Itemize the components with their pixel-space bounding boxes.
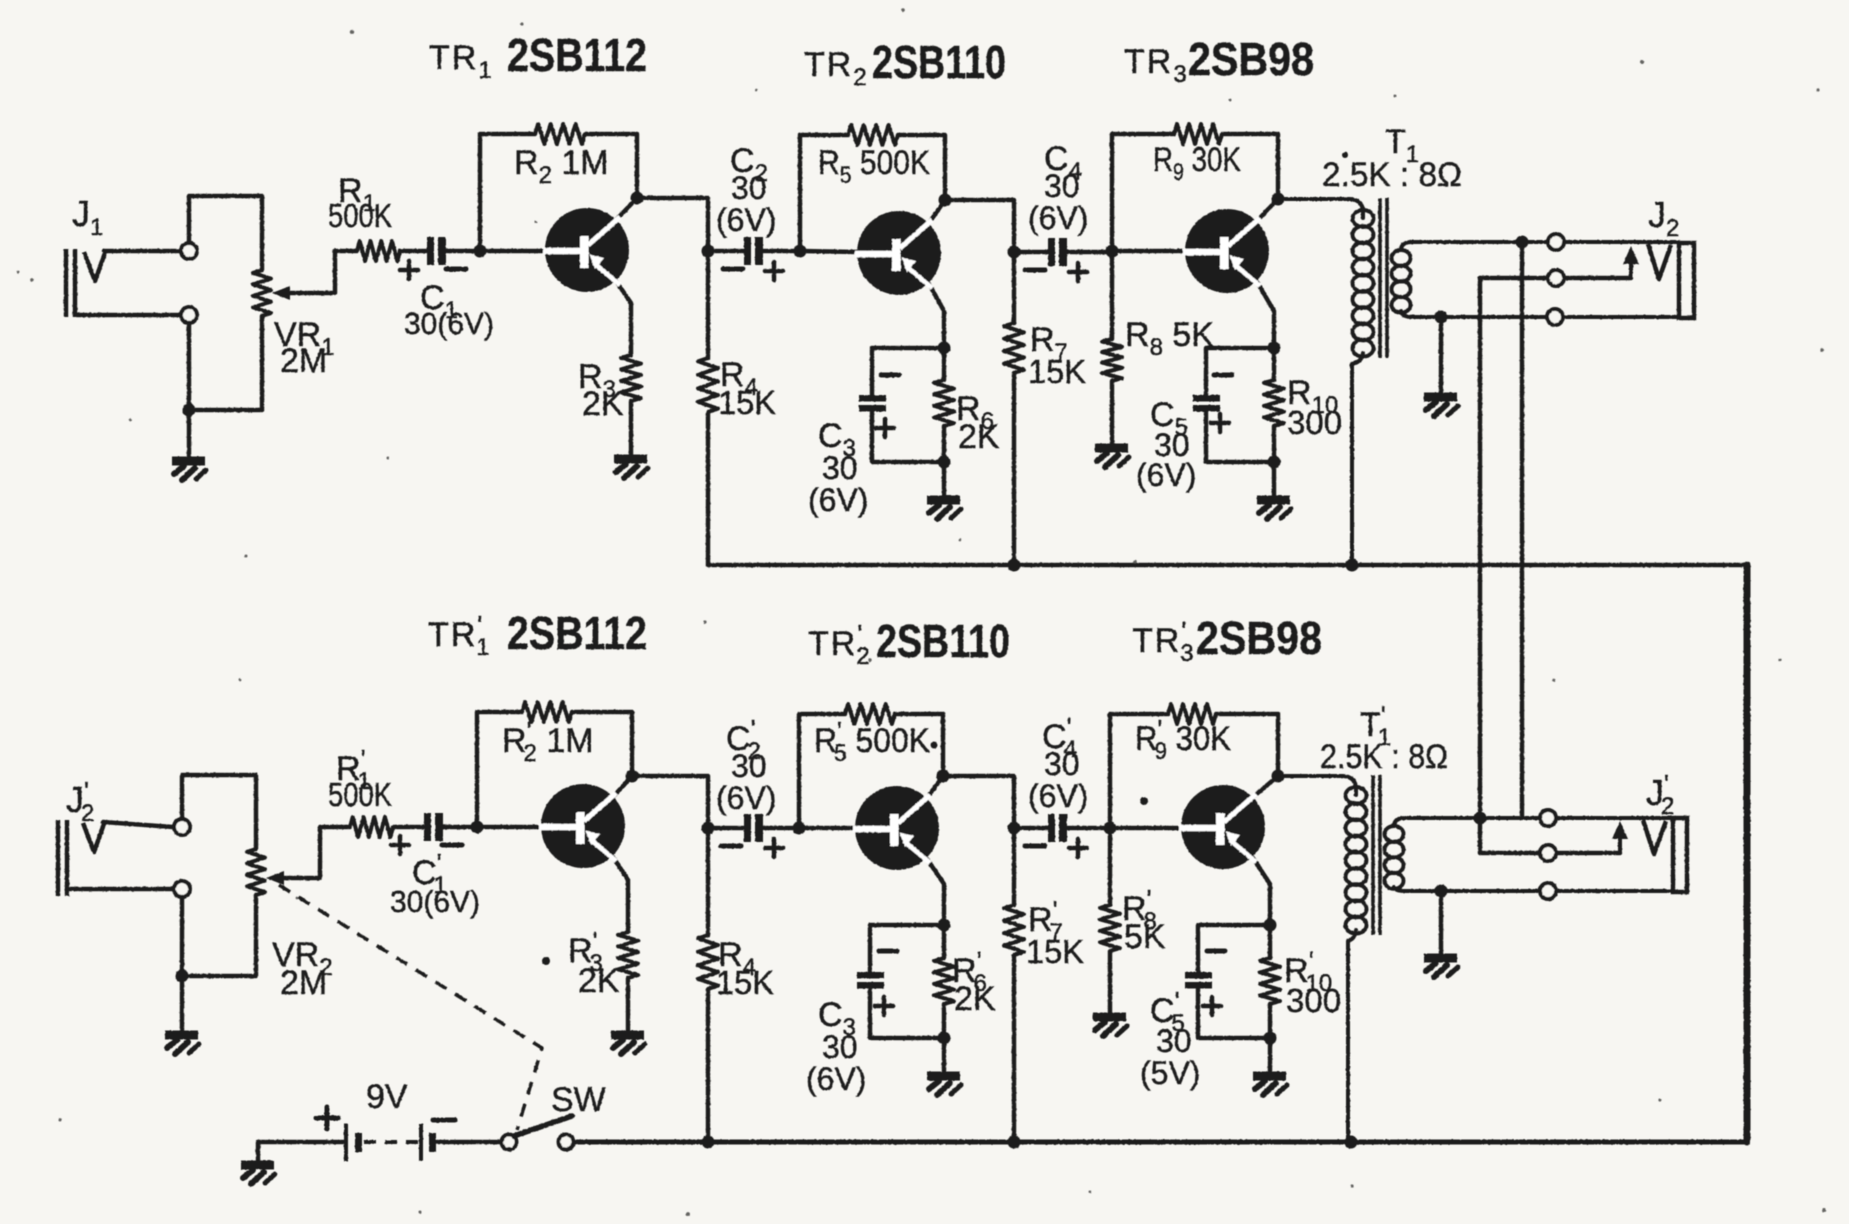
feedback loop wire up from node C' xyxy=(799,714,845,828)
resistor R6 2K xyxy=(942,348,946,380)
svg-text:TR'2: TR'2 xyxy=(808,619,872,670)
feedback loop wire up from node A xyxy=(480,134,535,251)
polarity - of C3 xyxy=(881,373,899,378)
svg-text:2SB112: 2SB112 xyxy=(507,607,647,659)
wire T1' secondary top to J2' xyxy=(1394,818,1673,825)
capacitor C5 30(6V) xyxy=(1193,395,1220,412)
feedback loop wire up from node E' xyxy=(1110,714,1168,828)
wire R7' to supply rail xyxy=(1012,955,1016,1142)
battery 9V cell 2 short plate xyxy=(429,1133,436,1152)
ground (below J2) xyxy=(1424,397,1458,416)
wire junction to ground (VR2) xyxy=(180,976,184,1032)
wire R9 to TR3 collector node xyxy=(1222,134,1278,198)
node: TR2 collector junction xyxy=(939,194,952,207)
wire C3' bottom to node xyxy=(870,989,944,1038)
wire R7 to supply rail xyxy=(1012,373,1016,565)
node: TR3' emitter / C5' tap xyxy=(1264,919,1277,932)
wire: J2 tip line to lower channel (long vertical) xyxy=(1520,242,1524,818)
svg-text:(6V): (6V) xyxy=(1136,457,1196,493)
resistor R3' 2K xyxy=(618,932,638,978)
battery inter-cell dashed link xyxy=(364,1140,419,1144)
svg-text:(6V): (6V) xyxy=(1028,200,1088,236)
resistor R7 15K xyxy=(1004,323,1024,373)
svg-text:R'2 1M: R'2 1M xyxy=(502,716,594,767)
wire R5 to TR2 collector node xyxy=(898,135,945,199)
ground (below VR2) xyxy=(165,1035,199,1054)
svg-text:(5V): (5V) xyxy=(1140,1055,1200,1091)
wire R2' to collector node xyxy=(572,712,632,775)
polarity - of C2' xyxy=(721,844,741,849)
node: secondary bottom / ground tap xyxy=(1435,311,1448,324)
ground (below J2') xyxy=(1424,958,1458,977)
wire R3 to ground xyxy=(629,401,633,456)
ground (below R6') xyxy=(927,1076,961,1095)
wire node C' to TR2' base xyxy=(799,826,857,830)
capacitor C1 30(6V) xyxy=(427,237,446,265)
feedback loop wire up from node C xyxy=(800,135,848,251)
node: TR3' collector junction xyxy=(1272,770,1285,783)
svg-text:(6V): (6V) xyxy=(806,1061,866,1097)
transformer T1 core xyxy=(1380,198,1387,358)
node C (TR2 base node) xyxy=(794,245,807,258)
supply bus right vertical (thick) xyxy=(1744,565,1751,1142)
wire T1 secondary top to J2 xyxy=(1401,242,1679,249)
node E' (TR3' base node) xyxy=(1104,822,1117,835)
polarity + of C3 xyxy=(876,419,894,437)
wire terminal down to ground node xyxy=(187,323,191,410)
svg-text:SW: SW xyxy=(551,1081,606,1119)
VR2 wiper arrow xyxy=(266,871,284,885)
polarity + of C4' xyxy=(1069,839,1087,857)
polarity - of C4 xyxy=(1025,268,1045,273)
wire TR1' collector to R4' top xyxy=(632,776,708,828)
battery + sign xyxy=(316,1107,338,1129)
node C' (TR2' base node) xyxy=(793,822,806,835)
wire C3 bottom to node xyxy=(872,412,944,462)
svg-text:2K: 2K xyxy=(578,962,620,1000)
svg-text:(6V): (6V) xyxy=(716,780,776,816)
input jack J2' xyxy=(58,820,67,896)
polarity - of C3' xyxy=(879,949,897,954)
resistor R1' 500K xyxy=(320,825,350,829)
svg-text:2M: 2M xyxy=(280,342,327,380)
terminal circle J2' sleeve contact xyxy=(1540,883,1556,899)
wire to ground below J2 xyxy=(1439,317,1443,394)
battery 9V cell 1 short plate xyxy=(355,1133,362,1152)
capacitor C2' 30(6V) xyxy=(744,814,763,842)
wire node C to TR2 base xyxy=(800,251,858,252)
node: VR2 bottom / ground junction xyxy=(176,970,189,983)
node: TR1 collector junction xyxy=(631,192,644,205)
TR3 emitter lead xyxy=(1257,282,1274,348)
svg-text:30: 30 xyxy=(731,748,767,784)
wire battery ground drop xyxy=(256,1142,260,1162)
wire C4' to node E' xyxy=(1067,826,1110,830)
ground (below R10') xyxy=(1253,1076,1287,1095)
wire C2' to node C' xyxy=(763,826,799,830)
polarity - of C2 xyxy=(723,267,743,272)
wire: J2 ring to lower channel (long vertical) xyxy=(1478,278,1482,853)
resistor R4 15K xyxy=(698,358,718,412)
wire J1 sleeve to terminal xyxy=(77,313,180,317)
wire to ground below J2' xyxy=(1439,891,1443,955)
node: rail/R4' junction xyxy=(702,1136,715,1149)
svg-text:30: 30 xyxy=(1044,168,1080,204)
TR1 emitter lead xyxy=(616,281,631,355)
node: TR2 emitter / C3 tap xyxy=(938,342,951,355)
J2' tip arrow xyxy=(1618,835,1622,853)
svg-text:15K: 15K xyxy=(1028,353,1086,390)
svg-text:500K: 500K xyxy=(328,776,392,813)
wire TR3 collector to T1 primary xyxy=(1278,199,1363,218)
node: secondary top / line tap xyxy=(1516,236,1529,249)
node: C5/R10 bottom junction xyxy=(1268,456,1281,469)
node: TR3 emitter / C5 tap xyxy=(1268,342,1281,355)
resistor R1 500K xyxy=(335,249,357,253)
transistor TR1' 2SB112 xyxy=(539,784,625,868)
svg-text:2.5K : 8Ω: 2.5K : 8Ω xyxy=(1322,156,1462,194)
output jack J2 xyxy=(1648,244,1671,279)
resistor R10 300 xyxy=(1272,348,1276,380)
node: rail/R7' junction xyxy=(1008,1136,1021,1149)
transformer T1' primary winding xyxy=(1346,787,1367,934)
J2' middle contact wire xyxy=(1480,851,1620,855)
wire node E' to TR3' base xyxy=(1110,826,1182,830)
node B' (TR1' collector / C2' tap) xyxy=(702,822,715,835)
node: TR1' collector junction xyxy=(626,770,639,783)
transistor TR3 2SB98 xyxy=(1183,209,1269,293)
switch SW xyxy=(502,1135,517,1150)
wire node E to TR3 base xyxy=(1112,249,1186,253)
polarity - of C1 xyxy=(446,267,466,272)
node: secondary bottom / ground tap (J2') xyxy=(1435,885,1448,898)
polarity + of C1' xyxy=(391,836,409,854)
wire terminal up to VR1 top xyxy=(189,196,262,270)
node: TR2' emitter / C3' tap xyxy=(938,919,951,932)
polarity + of C5' xyxy=(1203,997,1221,1015)
svg-text:9V: 9V xyxy=(366,1078,408,1116)
wire J2' tip to terminal xyxy=(103,822,173,827)
wire TR2 collector to R7 top xyxy=(945,200,1014,252)
transformer T1 primary winding xyxy=(1353,210,1374,357)
resistor R2 1M xyxy=(535,124,585,144)
svg-text:15K: 15K xyxy=(1026,933,1084,970)
svg-text:R'5 500K: R'5 500K xyxy=(814,716,930,767)
polarity + of C1 xyxy=(400,261,418,279)
TR2' emitter lead xyxy=(927,859,944,925)
capacitor C4 30(6V) xyxy=(1048,238,1067,266)
svg-text:30(6V): 30(6V) xyxy=(390,884,480,919)
ink speck near R3' xyxy=(542,957,550,965)
ink speck near TR3' xyxy=(1140,797,1148,805)
battery 9V cell 2 long plate xyxy=(419,1124,423,1161)
TR3' collector lead xyxy=(1253,776,1278,797)
transformer T1' secondary winding xyxy=(1385,826,1404,889)
node: TR3 collector junction xyxy=(1272,193,1285,206)
wire T1 secondary bottom to J2 sleeve xyxy=(1401,311,1679,317)
node: C5'/R10' bottom junction xyxy=(1264,1032,1277,1045)
capacitor C5' 30(5V) xyxy=(1185,972,1212,989)
wire C5 branch top xyxy=(1206,348,1274,395)
TR1 collector lead xyxy=(616,198,637,220)
transformer T1 secondary winding xyxy=(1392,250,1411,313)
node: VR1 bottom / ground junction xyxy=(183,404,196,417)
wire R5' to TR2' collector node xyxy=(895,714,943,775)
wire TR1 collector to R4 top xyxy=(637,198,708,251)
terminal circle J2 sleeve contact xyxy=(1547,309,1563,325)
capacitor C1' 30(6V) xyxy=(424,813,443,841)
svg-text:(6V): (6V) xyxy=(1028,778,1088,814)
svg-text:2SB110: 2SB110 xyxy=(872,36,1006,88)
resistor R8' 5K xyxy=(1108,828,1112,905)
svg-text:500K: 500K xyxy=(328,197,392,234)
TR2 collector lead xyxy=(929,200,945,223)
TR1' collector lead xyxy=(613,776,632,797)
terminal circle (J2' sleeve) xyxy=(174,881,190,897)
wire node B' down to R4' xyxy=(706,828,710,935)
svg-text:2K: 2K xyxy=(958,418,1000,456)
resistor R3 2K xyxy=(621,355,641,401)
svg-text:2.5K : 8Ω: 2.5K : 8Ω xyxy=(1320,738,1448,776)
ground (below R6) xyxy=(927,500,961,519)
ground (below VR1) xyxy=(172,461,206,480)
wire to ground below R10' xyxy=(1268,1038,1272,1073)
node A' (TR1' base node) xyxy=(471,821,484,834)
resistor R5' 500K xyxy=(845,704,895,724)
svg-text:2SB112: 2SB112 xyxy=(507,29,647,81)
wire R2 to collector node xyxy=(585,134,637,197)
wire to ground below R6 xyxy=(942,462,946,497)
svg-text:30: 30 xyxy=(822,1029,858,1065)
transistor TR2 2SB110 xyxy=(855,211,941,295)
ground (below R8) xyxy=(1095,448,1129,467)
wire TR2' collector to R7' top xyxy=(943,776,1014,828)
resistor R9' 30K xyxy=(1168,704,1216,724)
wire node B' to C2' xyxy=(708,826,744,830)
capacitor C4' 30(6V) xyxy=(1048,814,1067,842)
terminal circle J2 ring contact xyxy=(1548,270,1564,286)
svg-text:30: 30 xyxy=(822,450,858,486)
TR3' emitter lead xyxy=(1253,858,1270,925)
output jack J2' xyxy=(1643,820,1666,854)
VR1 wiper arrow xyxy=(272,286,290,300)
ground (below R3) xyxy=(614,459,648,478)
svg-text:5K: 5K xyxy=(1124,918,1166,956)
svg-text:30: 30 xyxy=(731,170,767,206)
node: rail/T1' primary junction xyxy=(1345,1136,1358,1149)
J2 tip arrow xyxy=(1629,260,1633,278)
svg-text:TR'1: TR'1 xyxy=(428,610,492,661)
wire VR1 bottom to ground node xyxy=(196,316,262,410)
transistor TR2' 2SB110 xyxy=(853,786,939,870)
J2 middle contact wire xyxy=(1480,276,1631,280)
resistor R8 5K xyxy=(1110,251,1114,339)
svg-text:15K: 15K xyxy=(716,964,774,1001)
node A (TR1 base node) xyxy=(474,245,487,258)
terminal circle (J1 tip) xyxy=(181,243,197,259)
wire R1' to C1' xyxy=(393,825,423,829)
transformer T1' core xyxy=(1373,775,1380,935)
capacitor C2 30(6V) xyxy=(744,237,763,265)
svg-text:2SB98: 2SB98 xyxy=(1196,612,1322,664)
wire C5 bottom to node xyxy=(1206,412,1274,462)
mechanical link VR2-SW (dashed) xyxy=(279,885,542,1130)
svg-text:TR'3: TR'3 xyxy=(1132,616,1196,667)
resistor R5 500K xyxy=(848,125,898,145)
polarity - of C4' xyxy=(1025,844,1045,849)
wire node D' down to R7' xyxy=(1012,828,1016,905)
svg-text:300: 300 xyxy=(1286,982,1341,1019)
wire T1 primary bottom to rail xyxy=(1352,353,1363,565)
wire terminal down to ground node xyxy=(180,897,184,976)
node: C3'/R6' bottom junction xyxy=(938,1032,951,1045)
TR1' emitter lead xyxy=(613,857,628,932)
wire R1 to C1 xyxy=(400,249,426,253)
svg-text:R'9 30K: R'9 30K xyxy=(1135,714,1231,765)
wire C5' branch top xyxy=(1198,925,1270,972)
wire C3 branch top xyxy=(872,348,944,395)
feedback loop wire up from node E xyxy=(1112,134,1174,251)
ground (below R3') xyxy=(611,1035,645,1054)
resistor R2' 1M xyxy=(522,702,572,722)
TR2' collector lead xyxy=(927,776,943,798)
wire node D to C4 xyxy=(1014,250,1048,254)
svg-text:2M: 2M xyxy=(280,964,327,1002)
wire to ground below R6' xyxy=(942,1038,946,1073)
wire R4 to supply rail xyxy=(706,412,710,565)
input jack J1 xyxy=(66,249,75,317)
potentiometer VR2 2M (element) xyxy=(247,849,265,895)
svg-text:2K: 2K xyxy=(954,980,996,1018)
node: C3/R6 bottom junction xyxy=(938,456,951,469)
terminal circle J2' tip contact xyxy=(1540,810,1556,826)
TR2 emitter lead xyxy=(929,284,944,348)
wire R4' to supply rail xyxy=(706,989,710,1142)
svg-text:(6V): (6V) xyxy=(716,202,776,238)
wire node A' to TR1' base xyxy=(477,825,542,829)
wire node D down to R7 xyxy=(1012,252,1016,323)
wire T1' primary bottom to rail xyxy=(1348,930,1356,1142)
resistor R9 30K xyxy=(1174,124,1222,144)
wire C2 to node C xyxy=(763,249,800,253)
ground (below R8') xyxy=(1093,1017,1127,1036)
wire VR2 bottom to ground node xyxy=(189,895,256,976)
svg-text:2SB98: 2SB98 xyxy=(1188,33,1314,85)
wire R9' to TR3' collector node xyxy=(1216,714,1278,775)
svg-text:30: 30 xyxy=(1156,1023,1192,1059)
feedback loop wire up from node A' xyxy=(477,712,522,827)
wire TR3' collector to T1' primary xyxy=(1278,776,1356,795)
svg-text:300: 300 xyxy=(1287,404,1342,441)
terminal circle (J1 sleeve) xyxy=(181,307,197,323)
svg-text:30(6V): 30(6V) xyxy=(404,306,494,341)
resistor R10' 300 xyxy=(1268,925,1272,958)
svg-text:(6V): (6V) xyxy=(808,482,868,518)
wire terminal up to VR2 top xyxy=(182,775,256,849)
node E (TR3 base node) xyxy=(1106,245,1119,258)
wire C5' bottom to node xyxy=(1198,989,1270,1038)
wire node B down to R4 xyxy=(706,251,710,358)
wire J2' sleeve to terminal xyxy=(69,887,173,891)
terminal circle J2 tip contact xyxy=(1548,234,1564,250)
battery - sign xyxy=(433,1118,455,1123)
polarity + of C2 xyxy=(765,262,783,280)
polarity - of C1' xyxy=(442,843,462,848)
transistor TR1 2SB112 xyxy=(543,208,629,292)
resistor R4' 15K xyxy=(698,935,718,989)
wire node D' to C4' xyxy=(1014,826,1048,830)
polarity - of C5 xyxy=(1214,373,1232,378)
supply rail (top channel) xyxy=(708,563,1747,568)
wire C4 to node E xyxy=(1067,250,1112,254)
wire to ground below R10 xyxy=(1272,462,1276,497)
transistor TR3' 2SB98 xyxy=(1179,785,1265,869)
svg-text:2SB110: 2SB110 xyxy=(876,615,1010,667)
ground (battery minus... left end) xyxy=(241,1165,275,1184)
terminal circle (J2' tip) xyxy=(174,819,190,835)
svg-text:2K: 2K xyxy=(582,385,624,423)
node: TR2' collector junction xyxy=(937,770,950,783)
terminal circle J2' ring contact xyxy=(1540,845,1556,861)
polarity + of C5 xyxy=(1211,414,1229,432)
node: vertical from J2 ring joins J2' tip line xyxy=(1474,812,1487,825)
ground (below R10) xyxy=(1257,500,1291,519)
wire T1' secondary bottom to J2' sleeve xyxy=(1394,887,1673,891)
battery 9V cell 1 long plate xyxy=(344,1124,348,1161)
svg-text:30: 30 xyxy=(1044,746,1080,782)
wire C1 to base node A xyxy=(446,249,480,253)
capacitor C3' 30(6V) xyxy=(857,972,884,989)
wire C3' branch top xyxy=(870,925,944,972)
wire node A to TR1 base xyxy=(480,249,546,253)
svg-text:15K: 15K xyxy=(718,384,776,421)
node D (TR2 collector / C4 tap) xyxy=(1008,246,1021,259)
polarity + of C4 xyxy=(1069,263,1087,281)
wire junction to ground xyxy=(187,410,191,458)
node D' (TR2' collector / C4' tap) xyxy=(1008,822,1021,835)
node: rail/R7 xyxy=(1008,559,1021,572)
polarity - of C5' xyxy=(1207,949,1225,954)
wire C1' to base node A' xyxy=(443,825,477,829)
capacitor C3 30(6V) xyxy=(859,395,886,412)
polarity + of C3' xyxy=(875,997,893,1015)
wire node B to C2 xyxy=(708,249,744,253)
resistor R6' 2K xyxy=(942,925,946,958)
supply rail (bottom channel) xyxy=(258,1140,345,1145)
TR3 collector lead xyxy=(1257,199,1278,221)
node B (TR1 collector / C2 tap) xyxy=(702,245,715,258)
potentiometer VR1 2M (element) xyxy=(253,270,271,316)
wire J1 tip to terminal xyxy=(104,249,180,253)
wire R3' to ground xyxy=(626,978,630,1032)
resistor R7' 15K xyxy=(1004,905,1024,955)
node: rail/T1 primary xyxy=(1346,559,1359,572)
polarity + of C2' xyxy=(765,839,783,857)
